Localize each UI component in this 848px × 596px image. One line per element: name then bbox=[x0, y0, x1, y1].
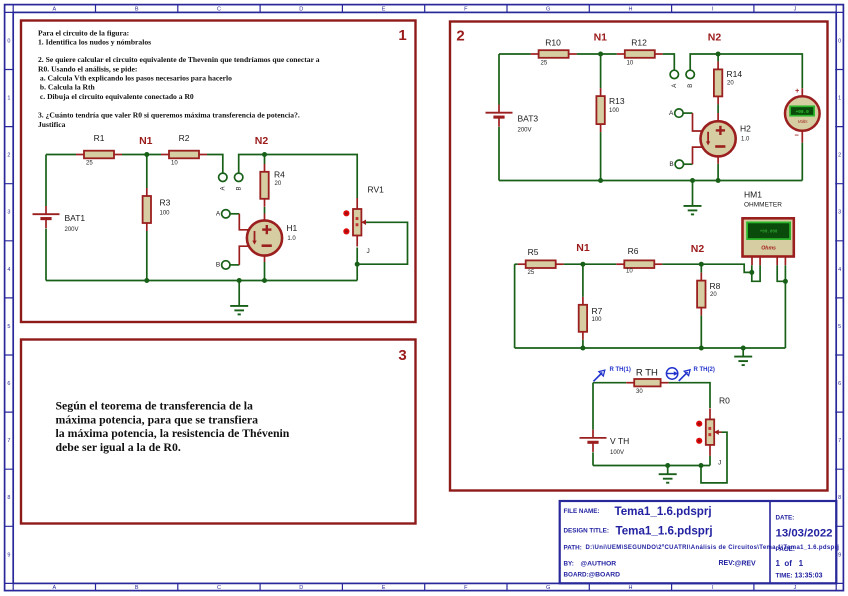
svg-text:1. Identifica los nudos y nómb: 1. Identifica los nudos y nómbralos bbox=[38, 38, 151, 47]
svg-text:OHMMETER: OHMMETER bbox=[744, 201, 782, 208]
svg-text:J: J bbox=[367, 248, 370, 255]
wire terminal B to N2 bbox=[690, 54, 718, 70]
junction ground (circuit 2) bbox=[690, 178, 695, 183]
wire top rail left (circuit 2) bbox=[499, 53, 531, 55]
svg-text:20: 20 bbox=[710, 292, 717, 298]
wire N2 down to R8 bbox=[700, 264, 702, 272]
svg-text:13/03/2022: 13/03/2022 bbox=[776, 528, 833, 540]
wire terminal B to N2 bbox=[239, 155, 265, 174]
svg-text:0: 0 bbox=[7, 38, 10, 44]
junction bottom R13 bbox=[598, 178, 603, 183]
svg-text:R7: R7 bbox=[592, 306, 603, 316]
svg-text:RV1: RV1 bbox=[368, 184, 385, 194]
svg-text:8: 8 bbox=[7, 495, 10, 501]
junction pin 1 bbox=[749, 270, 754, 275]
wire N2 to ohmmeter pin 1 bbox=[662, 264, 752, 272]
wire N1 down to R13 bbox=[600, 54, 602, 88]
junction bottom R8 bbox=[699, 346, 704, 351]
svg-text:−: − bbox=[795, 131, 800, 140]
svg-text:R TH(2): R TH(2) bbox=[694, 367, 715, 373]
svg-text:1.0: 1.0 bbox=[741, 137, 750, 143]
wire left vertical upper bbox=[45, 155, 47, 207]
svg-text:5: 5 bbox=[7, 324, 10, 330]
svg-text:R1: R1 bbox=[94, 133, 105, 143]
svg-text:7: 7 bbox=[7, 438, 10, 444]
svg-text:D:\Uni\UEM\SEGUNDO\2ºCUATRI\An: D:\Uni\UEM\SEGUNDO\2ºCUATRI\Análisis de … bbox=[586, 545, 840, 551]
svg-text:R5: R5 bbox=[528, 247, 539, 257]
svg-text:R8: R8 bbox=[710, 281, 721, 291]
wire R7 to bottom rail bbox=[582, 340, 584, 348]
svg-text:+00.0: +00.0 bbox=[796, 110, 810, 115]
wire N2 down bbox=[264, 155, 266, 165]
svg-text:10: 10 bbox=[627, 60, 634, 66]
svg-text:4: 4 bbox=[838, 267, 841, 273]
wire R4 to H1 bbox=[264, 207, 266, 214]
svg-text:+00.000: +00.000 bbox=[760, 231, 778, 235]
svg-text:@REV: @REV bbox=[735, 560, 757, 567]
svg-text:A: A bbox=[220, 186, 226, 190]
svg-text:a. Calcula Vth explicando los: a. Calcula Vth explicando los pasos nece… bbox=[38, 73, 232, 82]
svg-text:30: 30 bbox=[636, 389, 643, 395]
svg-text:H: H bbox=[628, 585, 632, 591]
svg-text:J: J bbox=[718, 460, 721, 467]
wire RV1 to bottom rail bbox=[356, 248, 358, 281]
svg-text:HM1: HM1 bbox=[744, 189, 762, 199]
wire bottom rail bbox=[46, 280, 357, 282]
svg-text:R10: R10 bbox=[545, 37, 561, 47]
wire ohmmeter pin 4 bbox=[784, 265, 786, 281]
svg-text:R0: R0 bbox=[719, 395, 730, 405]
svg-text:R TH: R TH bbox=[636, 368, 658, 379]
wire R12 to terminal A bbox=[663, 54, 675, 70]
svg-text:20: 20 bbox=[275, 181, 282, 187]
svg-text:H: H bbox=[628, 6, 632, 12]
svg-text:6: 6 bbox=[838, 381, 841, 387]
svg-text:@AUTHOR: @AUTHOR bbox=[581, 560, 617, 567]
resistor R13 bbox=[596, 88, 624, 132]
svg-text:R6: R6 bbox=[628, 246, 639, 256]
svg-text:Ohms: Ohms bbox=[761, 246, 776, 252]
svg-text:N1: N1 bbox=[139, 135, 153, 147]
H1 top pin stub bbox=[264, 214, 266, 221]
RV1 wiper return wire bbox=[357, 222, 407, 264]
junction bottom H2 bbox=[716, 178, 721, 183]
wire N2 down to R14 bbox=[717, 54, 719, 61]
H2 control wire B bbox=[693, 147, 703, 164]
svg-text:100: 100 bbox=[609, 108, 620, 114]
resistor R10 bbox=[531, 37, 577, 66]
svg-text:E: E bbox=[382, 6, 386, 12]
panel 1 instructions text bbox=[38, 28, 320, 128]
svg-text:A: A bbox=[216, 211, 221, 218]
wire bottom rail (Thevenin) bbox=[593, 465, 710, 467]
ground (circuit 1) bbox=[230, 281, 248, 315]
wire R0 to bottom rail bbox=[709, 456, 711, 466]
voltage probe R TH(2) bbox=[679, 367, 715, 381]
svg-text:9: 9 bbox=[7, 552, 10, 558]
svg-text:DATE:: DATE: bbox=[776, 515, 795, 522]
H1 control wire A bbox=[239, 214, 249, 230]
resistor R1 bbox=[76, 133, 122, 166]
resistor R3 bbox=[143, 188, 171, 231]
wire N2 to voltmeter bbox=[718, 54, 802, 88]
svg-text:100: 100 bbox=[592, 317, 603, 323]
svg-text:TIME:: TIME: bbox=[776, 572, 793, 579]
resistor R12 bbox=[617, 38, 663, 67]
wire ohmmeter pin 1 bbox=[751, 265, 753, 272]
wire left vertical (circuit 3) bbox=[514, 264, 516, 348]
svg-text:2: 2 bbox=[838, 153, 841, 159]
svg-text:máxima potencia, para que se t: máxima potencia, para que se transfiera bbox=[56, 412, 259, 426]
wire terminal B stub bbox=[230, 264, 239, 266]
wire R13 to bottom rail bbox=[600, 132, 602, 180]
svg-text:+: + bbox=[795, 86, 800, 95]
battery BAT1 bbox=[33, 206, 86, 233]
svg-text:J: J bbox=[794, 6, 797, 12]
svg-text:N1: N1 bbox=[576, 242, 590, 254]
svg-text:FILE NAME:: FILE NAME: bbox=[564, 508, 600, 515]
battery BAT3 bbox=[486, 105, 539, 134]
wire R5 to R6 bbox=[564, 263, 617, 265]
svg-text:A: A bbox=[672, 84, 678, 88]
wire terminal B stub (H2) bbox=[684, 163, 693, 165]
controlled source H1 bbox=[247, 220, 298, 255]
ground (circuit 3) bbox=[734, 348, 752, 365]
node N2 junction (circuit 3) bbox=[699, 262, 704, 267]
svg-text:Volts: Volts bbox=[798, 119, 809, 124]
resistor R14 bbox=[714, 61, 742, 104]
terminal B of H2 bbox=[669, 160, 683, 168]
wire left vertical upper (V TH) bbox=[592, 383, 594, 430]
wire N1 down to R7 bbox=[582, 264, 584, 297]
wire terminal A stub (H2) bbox=[683, 112, 692, 114]
wire H1 to bottom rail bbox=[264, 262, 266, 281]
resistor R2 bbox=[161, 133, 207, 166]
terminal A of H1 bbox=[216, 210, 230, 218]
svg-text:1 of 1: 1 of 1 bbox=[776, 559, 804, 568]
svg-text:Para el circuito de la figura:: Para el circuito de la figura: bbox=[38, 28, 129, 37]
svg-text:25: 25 bbox=[528, 270, 535, 276]
resistor R5 bbox=[518, 247, 564, 276]
wire pin 1 to pin 2 bbox=[752, 265, 760, 281]
panel 3 frame bbox=[21, 340, 416, 524]
svg-text:B: B bbox=[669, 161, 673, 168]
svg-text:10: 10 bbox=[171, 160, 178, 166]
svg-text:200V: 200V bbox=[65, 227, 79, 233]
wire R2 to terminal A bbox=[207, 155, 223, 174]
svg-text:Tema1_1.6.pdsprj: Tema1_1.6.pdsprj bbox=[616, 524, 713, 537]
svg-text:debe ser igual a la de R0.: debe ser igual a la de R0. bbox=[56, 440, 181, 454]
wire R8 to bottom rail bbox=[700, 316, 702, 348]
title block text bbox=[564, 505, 840, 580]
wire H2 to bottom rail bbox=[717, 164, 719, 181]
H2 bottom pin stub bbox=[717, 156, 719, 163]
wire R1 to R2 bbox=[122, 154, 161, 156]
svg-text:1.0: 1.0 bbox=[287, 236, 296, 242]
wire top rail to R TH bbox=[593, 382, 626, 384]
wire left vertical lower bbox=[45, 229, 47, 281]
svg-text:@BOARD: @BOARD bbox=[589, 572, 621, 579]
svg-text:6: 6 bbox=[7, 381, 10, 387]
svg-text:A: A bbox=[53, 585, 57, 591]
wire R14 to H2 bbox=[717, 104, 719, 113]
svg-text:B: B bbox=[135, 6, 139, 12]
svg-text:B: B bbox=[236, 186, 242, 190]
svg-text:E: E bbox=[382, 585, 386, 591]
svg-text:B: B bbox=[216, 262, 220, 269]
junction pin 4 bbox=[783, 279, 788, 284]
R0 wiper return wire bbox=[701, 432, 727, 483]
svg-text:3. ¿Cuánto tendría que valer R: 3. ¿Cuánto tendría que valer R0 si quere… bbox=[38, 111, 300, 120]
svg-text:1: 1 bbox=[398, 27, 406, 44]
wire R3 to bottom rail bbox=[146, 231, 148, 281]
svg-text:100V: 100V bbox=[610, 450, 624, 456]
wire bottom rail (circuit 2) bbox=[499, 180, 802, 182]
terminal B (circuit 1) bbox=[235, 173, 243, 190]
svg-text:R TH(1): R TH(1) bbox=[610, 367, 631, 373]
svg-text:R14: R14 bbox=[727, 69, 743, 79]
panel 1 frame bbox=[21, 21, 416, 323]
svg-text:C: C bbox=[217, 585, 221, 591]
svg-text:c. Dibuja el circuito equivale: c. Dibuja el circuito equivalente conect… bbox=[38, 92, 194, 101]
junction ground bbox=[237, 278, 242, 283]
svg-text:N1: N1 bbox=[594, 31, 608, 43]
wire N2 to RV1 bbox=[265, 155, 358, 199]
ground (Thevenin) bbox=[659, 466, 677, 483]
svg-text:5: 5 bbox=[838, 324, 841, 330]
H1 control wire B bbox=[239, 246, 249, 265]
terminal A (circuit 2) bbox=[670, 70, 678, 88]
svg-text:J: J bbox=[794, 585, 797, 591]
resistor R6 bbox=[616, 246, 662, 275]
svg-text:BY:: BY: bbox=[564, 560, 574, 567]
junction bottom H1 bbox=[262, 278, 267, 283]
terminal B of H1 bbox=[216, 261, 230, 269]
svg-text:DESIGN TITLE:: DESIGN TITLE: bbox=[564, 527, 609, 534]
svg-text:la máxima potencia, la resiste: la máxima potencia, la resistencia de Th… bbox=[56, 426, 290, 440]
resistor R4 bbox=[260, 164, 285, 207]
terminal A (circuit 1) bbox=[219, 173, 227, 190]
node N1 junction bbox=[144, 152, 149, 157]
battery V TH bbox=[580, 430, 630, 456]
svg-text:N2: N2 bbox=[691, 243, 705, 255]
wire N1 down to R3 bbox=[146, 155, 148, 189]
controlled source H2 bbox=[701, 121, 752, 156]
ohmmeter HM1 bbox=[743, 218, 794, 265]
svg-text:2. Se quiere calcular el circu: 2. Se quiere calcular el circuito equiva… bbox=[38, 55, 320, 64]
svg-text:H2: H2 bbox=[740, 124, 751, 134]
node N1 junction (circuit 2) bbox=[598, 52, 603, 57]
svg-text:200V: 200V bbox=[518, 127, 532, 133]
terminal B (circuit 2) bbox=[686, 70, 694, 88]
resistor R8 bbox=[697, 273, 721, 316]
svg-text:20: 20 bbox=[727, 81, 734, 87]
svg-text:H1: H1 bbox=[286, 223, 297, 233]
svg-text:13:35:03: 13:35:03 bbox=[795, 573, 823, 580]
junction ground (circuit 3) bbox=[741, 346, 746, 351]
title block frame bbox=[560, 501, 837, 583]
svg-text:A: A bbox=[53, 6, 57, 12]
svg-text:1: 1 bbox=[7, 95, 10, 101]
svg-text:REV:: REV: bbox=[719, 560, 735, 567]
svg-text:C: C bbox=[217, 6, 221, 12]
node N2 junction (circuit 2) bbox=[716, 52, 721, 57]
potentiometer RV1 bbox=[343, 184, 384, 255]
wire left vertical lower (V TH) bbox=[592, 452, 594, 465]
junction bottom N1 bbox=[144, 278, 149, 283]
svg-text:Justifica: Justifica bbox=[38, 120, 66, 129]
current probe bbox=[666, 368, 678, 379]
svg-text:4: 4 bbox=[7, 267, 10, 273]
svg-text:2: 2 bbox=[7, 153, 10, 159]
svg-text:D: D bbox=[299, 6, 303, 12]
wire voltmeter to bottom rail bbox=[801, 143, 803, 181]
svg-text:7: 7 bbox=[838, 438, 841, 444]
svg-text:100: 100 bbox=[160, 211, 171, 217]
svg-text:R4: R4 bbox=[274, 170, 285, 180]
wire rail to R5 bbox=[515, 263, 518, 265]
terminal A of H2 bbox=[669, 109, 683, 117]
H1 bottom pin stub bbox=[264, 256, 266, 262]
junction ground (Thevenin) bbox=[665, 463, 670, 468]
svg-text:Tema1_1.6.pdsprj: Tema1_1.6.pdsprj bbox=[615, 505, 712, 518]
panel 2 frame bbox=[450, 22, 828, 491]
junction RV1 bottom bbox=[355, 262, 360, 267]
H2 top pin stub bbox=[717, 113, 719, 121]
svg-text:N2: N2 bbox=[255, 135, 269, 147]
wire R10 to R12 bbox=[577, 53, 617, 55]
svg-text:Según el teorema de transferen: Según el teorema de transferencia de la bbox=[56, 398, 254, 412]
voltmeter bbox=[785, 86, 820, 143]
svg-text:B: B bbox=[135, 585, 139, 591]
wire R TH to R0 bbox=[669, 383, 710, 408]
svg-text:G: G bbox=[546, 585, 550, 591]
resistor R7 bbox=[579, 297, 603, 340]
node N1 junction (circuit 3) bbox=[580, 262, 585, 267]
svg-text:B: B bbox=[688, 84, 694, 88]
svg-text:3: 3 bbox=[7, 210, 10, 216]
svg-text:25: 25 bbox=[541, 60, 548, 66]
svg-text:1: 1 bbox=[838, 95, 841, 101]
ground (circuit 2) bbox=[684, 181, 702, 215]
svg-text:10: 10 bbox=[626, 268, 633, 274]
svg-text:R3: R3 bbox=[160, 197, 171, 207]
panel 3 answer text bbox=[56, 398, 290, 454]
svg-text:3: 3 bbox=[398, 347, 406, 364]
node N2 junction bbox=[262, 152, 267, 157]
svg-text:25: 25 bbox=[86, 160, 93, 166]
wire bottom rail (circuit 3) bbox=[515, 347, 786, 349]
wire pin 4 down to bottom rail bbox=[784, 281, 786, 348]
svg-text:9: 9 bbox=[838, 552, 841, 558]
wire left vertical upper (BAT3) bbox=[498, 54, 500, 105]
svg-text:BAT1: BAT1 bbox=[65, 213, 86, 223]
svg-text:V TH: V TH bbox=[610, 436, 629, 446]
voltage probe R TH(1) bbox=[594, 367, 631, 381]
svg-text:b. Calcula la Rth: b. Calcula la Rth bbox=[38, 83, 96, 92]
svg-text:BAT3: BAT3 bbox=[518, 113, 539, 123]
wire top rail left bbox=[46, 154, 76, 156]
resistor R TH bbox=[626, 368, 668, 395]
svg-text:N2: N2 bbox=[708, 32, 722, 44]
wire pin 3 to pin 4 bbox=[777, 265, 785, 281]
svg-text:D: D bbox=[299, 585, 303, 591]
junction R0 bottom bbox=[699, 463, 704, 468]
svg-text:G: G bbox=[546, 6, 550, 12]
svg-text:R0. Usando el análisis, se pid: R0. Usando el análisis, se pide: bbox=[38, 64, 137, 73]
svg-text:R13: R13 bbox=[609, 96, 625, 106]
svg-text:R2: R2 bbox=[179, 133, 190, 143]
svg-text:PATH:: PATH: bbox=[564, 544, 582, 551]
svg-text:2: 2 bbox=[456, 27, 464, 44]
svg-text:R12: R12 bbox=[631, 38, 647, 48]
junction bottom R7 bbox=[580, 346, 585, 351]
wire terminal A stub bbox=[230, 213, 239, 215]
wire left vertical lower (BAT3) bbox=[498, 127, 500, 181]
svg-text:0: 0 bbox=[838, 38, 841, 44]
svg-text:BOARD:: BOARD: bbox=[564, 571, 589, 578]
potentiometer R0 bbox=[696, 395, 730, 466]
svg-text:A: A bbox=[669, 110, 674, 117]
svg-text:3: 3 bbox=[838, 210, 841, 216]
svg-text:8: 8 bbox=[838, 495, 841, 501]
H2 control wire A bbox=[693, 113, 703, 131]
